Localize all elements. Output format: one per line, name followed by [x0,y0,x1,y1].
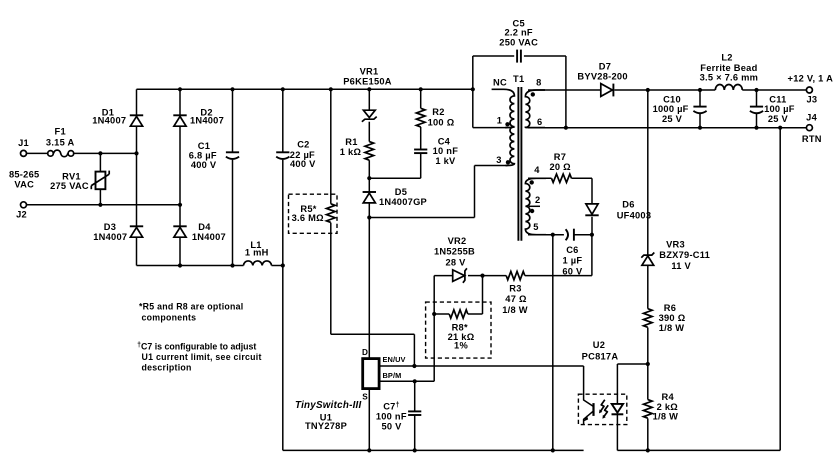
value D5 [379,197,427,207]
junction at 552.8,450.4 [551,448,555,452]
wire: opto LED cathode drop [616,414,618,451]
diode D5 1N4007GP [363,192,376,203]
junction at 647.8,90.0 [646,88,650,92]
label D4 [198,222,211,232]
connector J2 terminal [21,202,27,208]
svg-text:D5: D5 [395,187,407,197]
junction at 647.8,364.0 [646,362,650,366]
junction at 369.3,217.5 [367,215,371,219]
capacitor C11 100 uF 25 V [750,107,763,114]
pin D [362,348,368,357]
capacitor C7 100 nF 50 V [408,411,421,415]
junction at 100.4,204.8 [98,203,102,207]
value VR3 line1 [659,250,710,260]
svg-text:1N5255B: 1N5255B [434,247,475,257]
wire: C1 column [232,89,234,265]
svg-text:1 kV: 1 kV [435,156,456,166]
pin 3 [496,155,501,165]
label C6 [566,245,578,255]
junction at 369.3,89.3 [367,87,371,91]
svg-text:R7: R7 [554,152,566,162]
svg-text:C1: C1 [198,141,210,151]
wire: opto LED feed [617,364,647,404]
junction at 420.7,89.3 [419,87,423,91]
svg-text:C10: C10 [663,94,681,104]
label T1 [513,74,524,84]
svg-text:20 Ω: 20 Ω [550,162,572,172]
junction at 591.9,234.7 [590,233,594,237]
label J2 [16,209,27,219]
value C2 line2 [290,159,316,169]
wire: pin 2 stub [529,205,540,207]
capacitor C1 6.8 uF 400 V [226,152,239,159]
svg-text:100 nF: 100 nF [376,412,407,422]
zener VR2 1N5255B 28 V [453,268,467,283]
value R8 line1 [448,332,475,342]
svg-text:Ferrite Bead: Ferrite Bead [700,63,757,73]
svg-text:2: 2 [535,195,540,205]
wire: C7 branch [414,381,416,450]
pin 8 [536,78,541,88]
wire: clamp bottom tie R1-C4 [369,177,420,179]
svg-text:400 V: 400 V [191,160,217,170]
label C4 [438,136,451,146]
svg-text:S: S [362,393,368,402]
junction at 472.8,89.3 [471,87,475,91]
svg-text:*R5 and R8 are optional: *R5 and R8 are optional [139,301,244,311]
wire: C5 horizontal top [473,55,566,57]
label F1 [55,126,66,136]
value R6 line2 [659,323,685,333]
svg-text:EN/UV: EN/UV [383,355,406,364]
junction at 700.0,90.0 [698,88,702,92]
varistor RV1 275 VAC [91,171,109,190]
junction at 414.7,450.4 [413,448,417,452]
T1 phase dot pin 2 [530,209,534,213]
pin NC [493,78,507,88]
value C6 line2 [562,266,583,276]
svg-text:1N4007: 1N4007 [190,116,224,126]
wire: output rail after L2 to J3 [742,89,806,91]
wire: AC input J2 line [26,204,180,206]
junction at 136.5,153.4 [134,151,138,155]
junction at 414.4,366.0 [412,364,416,368]
value C1 line2 [191,160,217,170]
svg-text:F1: F1 [55,126,66,136]
pin 6 [537,117,542,127]
svg-text:BZX79-C11: BZX79-C11 [659,250,710,260]
svg-text:2 kΩ: 2 kΩ [657,402,679,412]
value C7 line1 [376,412,407,422]
resistor R4 2 kohm [644,400,653,419]
junction at 369.3,178.2 [367,176,371,180]
svg-text:1 µF: 1 µF [563,256,583,266]
label J3 [806,95,817,105]
junction at 282.8,89.3 [281,87,285,91]
svg-text:5: 5 [533,222,538,232]
connector J3 terminal [806,87,812,93]
junction at 369.3,450.4 [367,448,371,452]
svg-text:components: components [142,313,197,323]
value U1 [305,421,347,431]
wire: R2 snubber column [420,89,422,178]
svg-text:J2: J2 [16,209,27,219]
value C6 line1 [563,256,583,266]
svg-text:D4: D4 [198,222,211,232]
resistor R7 20 ohm [552,174,572,182]
svg-text:3.15 A: 3.15 A [46,138,75,148]
wire: D1/D3 column [136,89,138,265]
value R3 line2 [502,305,528,315]
label J4 [806,113,817,123]
wire: secondary pin 8 rail to D7 [528,89,601,91]
label TinySwitch-III [295,400,361,411]
svg-text:TNY278P: TNY278P [305,421,347,431]
connector J4 terminal [806,125,812,131]
opto U2 LED [612,404,624,414]
junction at 180.0,265.5 [178,263,182,267]
label C1 [198,141,210,151]
value VR2 line2 [445,257,466,267]
diode D1 1N4007 [130,115,143,126]
wire: D2/D4 column [179,89,181,265]
value C1 line1 [189,151,217,161]
wire: secondary ground rail [617,449,780,451]
value F1 [46,138,75,148]
label C2 [297,139,309,149]
junction at 434.2,314.0 [432,312,436,316]
resistor R8 21 kohm (optional, dashed box) [426,302,491,358]
wire: VR1/R1 clamp column [368,89,370,178]
label R4 [662,392,675,402]
svg-text:60 V: 60 V [562,266,583,276]
value L1 [245,248,269,258]
svg-text:1N4007GP: 1N4007GP [379,197,427,207]
junction at 780.2,127.7 [778,126,782,130]
wire: R4 branch [647,364,649,450]
label C5 [513,19,525,29]
transformer T1 primary winding lower (pin 1 to pin 3) [505,127,514,166]
value L2 line2 [700,73,759,83]
value C10 line1 [653,104,689,114]
wire: D6 cathode to C6 node [591,217,593,235]
fuse F1 3.15 A [48,150,74,157]
wire: primary DC bus top rail [137,88,473,90]
label C7 with dagger [383,402,400,412]
value VR1 [343,77,392,87]
capacitor C5 2.2 nF 250 VAC [517,50,521,63]
diode D6 UF4003 [585,204,598,215]
note: R5 and R8 optional [139,301,244,322]
net RTN [802,134,822,144]
label R7 [554,152,566,162]
wire: U1 source to ground [368,389,370,451]
value L2 line1 [700,63,757,73]
resistor R1 1 kohm [365,142,374,161]
pin 4 [534,165,540,175]
value C10 line2 [662,114,683,124]
value D3 [93,232,127,242]
svg-text:25 V: 25 V [768,114,789,124]
value D4 [192,232,226,242]
svg-text:1%: 1% [454,340,468,350]
wire: L1 to C2 node [272,265,283,267]
svg-text:R1: R1 [345,137,357,147]
capacitor C6 1 uF 60 V [566,229,574,241]
T1 phase dot pin 1 [505,122,509,126]
wire: R5 jog to EN/UV [331,334,415,366]
svg-text:R3: R3 [509,284,521,294]
svg-text:BYV28-200: BYV28-200 [577,71,627,81]
svg-text:10 nF: 10 nF [433,146,459,156]
svg-text:25 V: 25 V [662,114,683,124]
svg-text:RV1: RV1 [62,172,81,182]
zener VR3 BZX79-C11 11 V [641,253,654,266]
label VR3 [666,239,685,249]
value C5 line2 [499,38,538,48]
svg-text:PC817A: PC817A [582,352,619,362]
value C4 line2 [435,156,456,166]
label U1 [320,413,332,423]
label U2 [593,340,605,350]
value VR2 line1 [434,247,475,257]
svg-text:1N4007: 1N4007 [192,232,226,242]
wire: secondary return rail [528,127,807,129]
resistor R3 47 ohm [506,271,525,279]
svg-text:VR1: VR1 [360,67,379,77]
svg-text:C2: C2 [297,139,309,149]
diode D2 1N4007 [173,115,186,126]
junction at 100.4,153.4 [98,151,102,155]
junction at 700.0,127.7 [698,126,702,130]
svg-text:50 V: 50 V [381,422,402,432]
svg-text:NC: NC [493,78,507,88]
transformer T1 primary winding upper (NC to pin 1) [492,89,515,126]
value R8 line2 [454,340,468,350]
svg-text:3: 3 [496,155,501,165]
junction at 414.7,381.3 [413,379,417,383]
label D3 [104,222,116,232]
svg-text:6: 6 [537,117,542,127]
value C5 line1 [505,28,533,38]
svg-text:U1 current limit, see circuit: U1 current limit, see circuit [142,352,262,362]
svg-text:P6KE150A: P6KE150A [343,77,392,87]
svg-text:D: D [362,348,368,357]
value C11 line1 [764,104,795,114]
label 85-265 VAC line1 [9,170,39,180]
wire: VR2 top link [434,275,482,277]
opto U2 phototransistor [583,366,593,425]
wire: C5 right leg [565,56,567,128]
value R5 [292,213,325,223]
svg-text:description: description [142,363,192,373]
svg-text:VR3: VR3 [666,239,685,249]
wire: D5 branch [368,178,370,217]
junction at 232.5,89.3 [230,87,234,91]
inductor L2 ferrite bead [715,85,742,91]
wire: pin5 / C6 line [528,234,592,236]
junction at 565.9,127.7 [564,126,568,130]
svg-text:C6: C6 [566,245,578,255]
T1 phase dot pin 8 [531,92,535,96]
pin S [362,393,368,402]
svg-text:C11: C11 [769,94,786,104]
capacitor C4 10 nF 1 kV [414,150,427,154]
svg-text:2.2 nF: 2.2 nF [505,28,533,38]
junction at 552.8,234.7 [551,233,555,237]
wire: R5 line-sense column [330,89,332,334]
transformer T1 bias winding (pin 4 - pin 2 - pin 5) [525,178,546,234]
label C11 [769,94,786,104]
value VR3 line2 [671,261,691,271]
svg-text:11 V: 11 V [671,261,691,271]
value C11 line2 [768,114,789,124]
value R3 line1 [505,294,527,304]
value R6 line1 [659,313,686,323]
svg-text:1/8 W: 1/8 W [502,305,528,315]
svg-text:4: 4 [534,165,540,175]
value D2 [190,116,224,126]
capacitor C10 1000 uF 25 V [693,107,706,114]
junction at 647.8,450.4 [646,448,650,452]
svg-text:1 kΩ: 1 kΩ [340,147,362,157]
label L1 [250,240,261,250]
wire: EN/UV line to optocoupler [379,365,583,367]
wire: C2 column and primary ground left drop [282,89,284,450]
label D5 [395,187,407,197]
svg-text:1/8 W: 1/8 W [659,323,685,333]
svg-text:100 Ω: 100 Ω [428,117,455,127]
junction at 482.5,275.6 [480,274,484,278]
value U2 [582,352,619,362]
svg-text:1 mH: 1 mH [245,248,269,258]
value D7 [577,71,627,81]
svg-text:†C7 is configurable to adjust: †C7 is configurable to adjust [137,341,256,351]
value R4 line1 [657,402,679,412]
wire: RV1 branch vertical [99,153,101,204]
svg-text:C4: C4 [438,136,451,146]
label R3 [509,284,521,294]
svg-text:J4: J4 [806,113,817,123]
svg-text:R2: R2 [432,107,444,117]
label D2 [200,108,212,118]
value R4 line2 [653,412,679,422]
label J1 [18,138,29,148]
svg-text:VAC: VAC [14,180,34,190]
label VR2 [448,236,467,246]
svg-text:250 VAC: 250 VAC [499,38,538,48]
value C4 line1 [433,146,459,156]
svg-text:UF4003: UF4003 [617,211,652,221]
diode D7 BYV28-200 [601,84,614,97]
wire: R7 to D6 [572,178,593,203]
svg-text:TinySwitch-III: TinySwitch-III [295,400,361,411]
svg-text:+12 V, 1 A: +12 V, 1 A [788,74,834,84]
value C2 line1 [290,150,315,160]
capacitor C2 22 uF 400 V [276,152,289,159]
wire: D7 cathode to output rail [614,89,715,91]
wire: bias return to primary ground [552,235,554,451]
svg-text:D7: D7 [599,62,611,72]
opto U2 light arrows [599,400,608,419]
svg-text:J1: J1 [18,138,29,148]
wire: secondary return riser [779,128,781,451]
svg-text:1N4007: 1N4007 [92,116,126,126]
note: C7 configurable [137,341,262,372]
svg-text:8: 8 [536,78,541,88]
label R1 [345,137,357,147]
resistor R2 100 ohm [416,108,425,127]
junction at 756.5,90.0 [754,88,758,92]
wire: primary ground bottom rail [283,449,584,451]
pin 5 [533,222,538,232]
svg-text:28 V: 28 V [445,257,466,267]
svg-text:L2: L2 [721,52,732,62]
svg-text:D3: D3 [104,222,116,232]
svg-text:100 µF: 100 µF [764,104,795,114]
wire: C5 left leg and pin 1 feed [473,56,507,128]
junction at 282.8,265.5 [281,263,285,267]
svg-text:R4: R4 [662,392,675,402]
label D1 [102,108,114,118]
svg-text:1: 1 [497,116,502,126]
svg-text:3.6 MΩ: 3.6 MΩ [292,213,325,223]
wire: drain node to transformer pin 3 [369,166,507,218]
diode D4 1N4007 [173,226,186,237]
wire: drain column to U1 [368,218,370,359]
label C10 [663,94,681,104]
resistor R6 390 ohm [644,309,653,328]
svg-text:T1: T1 [513,74,524,84]
svg-text:390 Ω: 390 Ω [659,313,686,323]
label R6 [664,303,676,313]
svg-text:D6: D6 [622,200,634,210]
label 85-265 VAC line2 [14,180,34,190]
junction at 180.0,89.3 [178,87,182,91]
T1 phase dot pin 4 [530,180,534,184]
wire: R3 leads [483,235,592,276]
pin 2 [535,195,540,205]
value D1 [92,116,126,126]
junction at 180.0,204.8 [178,203,182,207]
pin BP/M [383,371,402,380]
svg-text:U2: U2 [593,340,605,350]
wire: C10 branch [699,90,701,128]
svg-text:R6: R6 [664,303,676,313]
transformer T1 core [518,87,521,241]
wire: bias pin4 to R7 [528,177,552,179]
transformer T1 secondary winding (pin 8 to pin 6) [525,90,545,128]
wire: BP/M line [379,380,434,382]
svg-text:1000 µF: 1000 µF [653,104,689,114]
inductor L1 1 mH [244,261,272,266]
pin 1 [497,116,502,126]
value D6 [617,211,652,221]
connector J1 terminal [21,150,27,156]
svg-text:VR2: VR2 [448,236,467,246]
label R5 [300,204,316,214]
value R7 [550,162,572,172]
value R1 [340,147,362,157]
svg-text:BP/M: BP/M [383,371,402,380]
wire: VR3/R6 sense column [647,90,649,364]
value RV1 [50,181,89,191]
svg-text:J3: J3 [806,95,817,105]
label D7 [599,62,611,72]
label L2 [721,52,732,62]
label D6 [622,200,634,210]
wire: bridge negative rail to L1 [137,265,244,267]
